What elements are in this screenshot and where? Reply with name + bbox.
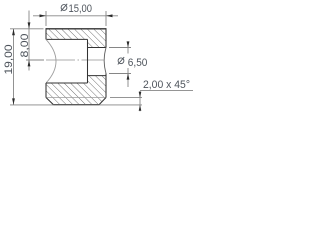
- extension line 8,00 at hole axis: [26, 59, 44, 61]
- part outline: lower block top edge right portion: [88, 75, 107, 77]
- hatched section region top (L-shape): [46, 29, 106, 48]
- extension line right ⌀15,00: [105, 11, 107, 26]
- dimension line 19,00: [13, 29, 15, 105]
- part outline: right edge upper: [105, 28, 107, 47]
- arrow left of ⌀15,00: [40, 14, 47, 17]
- chamfer silhouette edge across part: [47, 97, 106, 99]
- dimension ⌀6,50 text: [118, 57, 148, 69]
- svg-text:2,00 x 45°: 2,00 x 45°: [143, 79, 190, 91]
- extension line chamfer bottom / 19,00 bottom reference: [10, 104, 142, 106]
- chamfer dimension line vertical: [139, 91, 141, 111]
- hatched section region bottom (L-shape with chamfers): [46, 76, 106, 105]
- part outline: lower band top edge left portion: [46, 82, 88, 84]
- extension line top-left (19,00 / 8,00 reference): [10, 28, 44, 30]
- chamfer text shoulder line: [140, 90, 193, 92]
- chamfer left: [46, 98, 54, 105]
- dimension ⌀15,00 text: [61, 3, 92, 15]
- extension line left ⌀15,00: [45, 11, 47, 26]
- arrow chamfer top (outside, pointing down): [139, 92, 142, 98]
- svg-text:6,50: 6,50: [128, 57, 148, 69]
- extension line ⌀6,50 bottom: [109, 73, 131, 75]
- arrow top 19,00: [12, 29, 15, 35]
- svg-text:15,00: 15,00: [69, 3, 93, 15]
- arrow right of ⌀15,00: [106, 14, 113, 17]
- extension line chamfer top: [110, 97, 142, 99]
- part outline: bottom edge: [54, 104, 100, 106]
- part outline: right edge lower: [105, 74, 107, 98]
- dimension line ⌀6,50 vertical: [127, 42, 129, 54]
- arrow top 8,00 (outside, pointing down): [28, 22, 31, 28]
- part outline: top edge: [46, 28, 107, 30]
- dimension line 8,00: [28, 11, 30, 71]
- part outline: inner step vertical: [87, 39, 89, 83]
- arrow bottom 8,00 (outside, pointing up): [28, 60, 31, 66]
- centerline of hole (dash-dot): [46, 59, 75, 61]
- part outline: flange bottom left portion: [46, 38, 88, 40]
- part outline: hole top edge (inside): [88, 47, 107, 49]
- arrow bottom 19,00: [12, 98, 15, 104]
- arrow ⌀6,50 top (outside, pointing down): [127, 41, 130, 47]
- arrow chamfer bottom (outside, pointing up): [139, 105, 142, 111]
- waist arc right (silhouette): [104, 48, 106, 74]
- arrow ⌀6,50 bottom (outside, pointing up): [127, 74, 130, 80]
- waist arc left (silhouette): [46, 39, 56, 83]
- part outline: left edge upper: [45, 28, 47, 39]
- svg-text:19,00: 19,00: [3, 45, 15, 75]
- extension line ⌀6,50 top: [109, 47, 131, 49]
- part outline: left edge lower: [45, 83, 47, 98]
- dimension line ⌀15,00: [33, 15, 118, 17]
- chamfer right: [99, 98, 106, 105]
- svg-text:8,00: 8,00: [19, 34, 31, 58]
